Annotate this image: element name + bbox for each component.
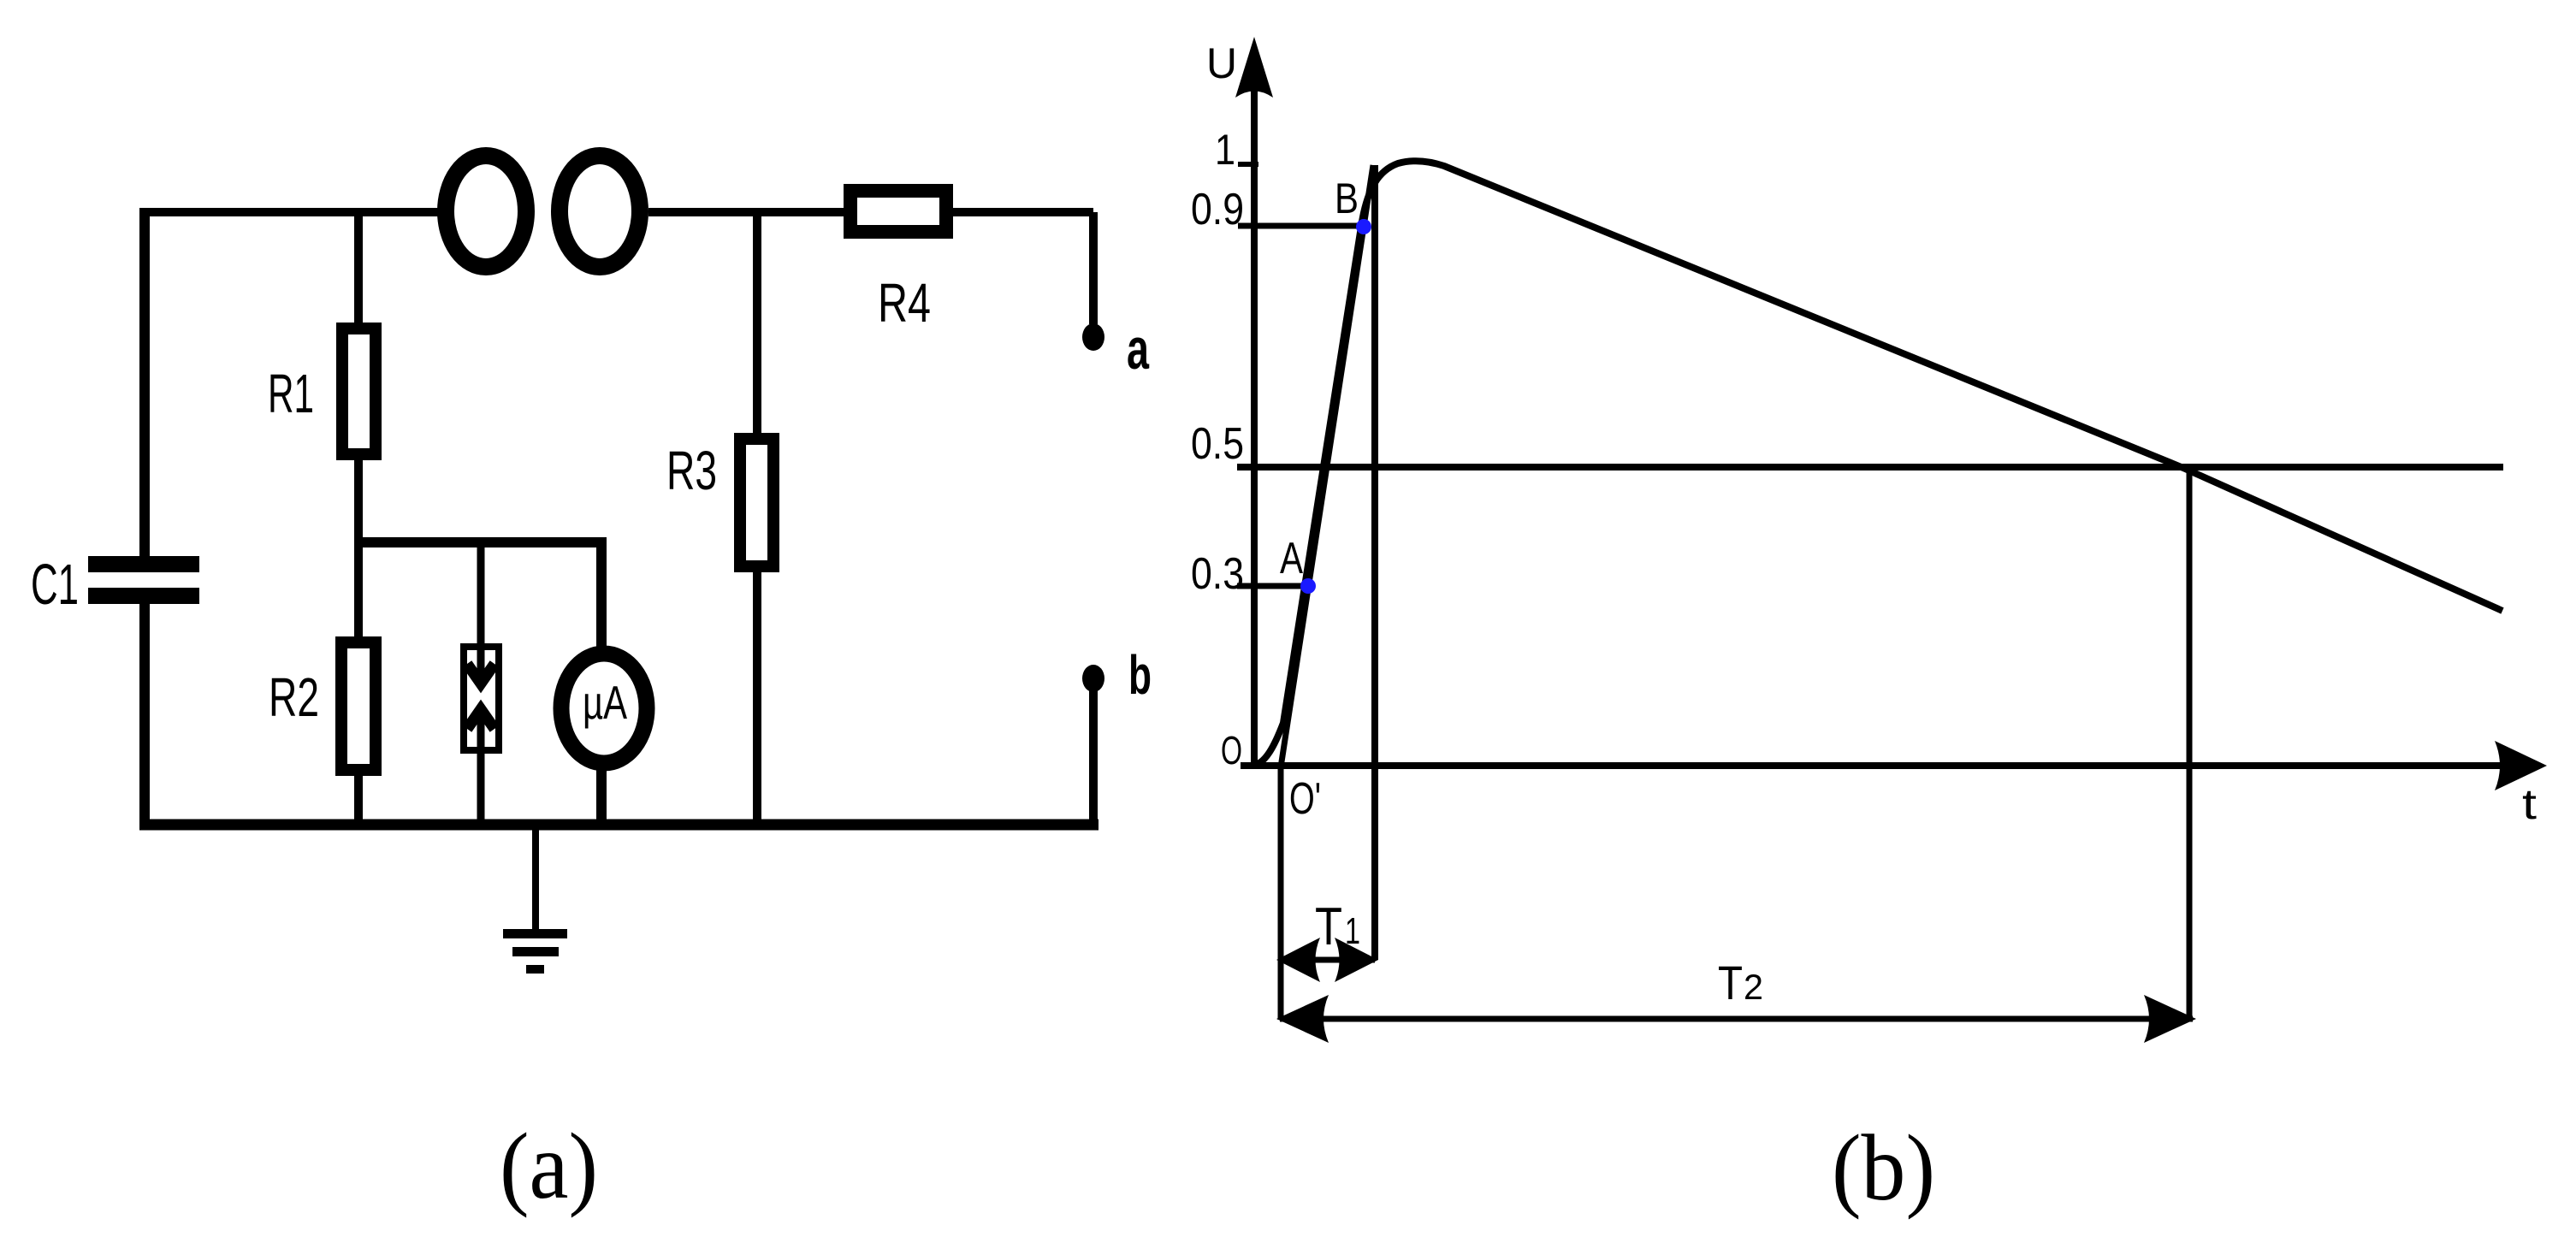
- svg-text:0.5: 0.5: [1191, 419, 1244, 469]
- vertical line at T2 end: [2187, 469, 2193, 1020]
- wire left vertical C1 branch upper: [139, 208, 150, 558]
- wire mid bus down leg to meter: [596, 537, 607, 648]
- svg-text:O: O: [1221, 728, 1242, 772]
- U axis arrowhead: [1235, 37, 1273, 98]
- arrester top arrow: [467, 664, 494, 684]
- T2 arrow left head: [1276, 995, 1329, 1043]
- line U=0.9: [1238, 223, 1364, 229]
- svg-text:B: B: [1335, 175, 1359, 222]
- wire left vertical C1 branch lower: [139, 602, 150, 828]
- tangent line: [1281, 165, 1373, 767]
- wire meter to bottom bus: [596, 761, 607, 824]
- svg-text:R2: R2: [269, 666, 319, 728]
- wire mid bus: [354, 537, 601, 547]
- vertical line at T1 end: [1371, 165, 1378, 960]
- T1 arrow shaft: [1281, 957, 1375, 963]
- svg-text:2: 2: [1744, 967, 1763, 1007]
- wire diode branch lower: [477, 708, 485, 824]
- resistor R4: [850, 191, 946, 232]
- svg-text:R4: R4: [878, 272, 931, 334]
- microammeter uA: [561, 654, 647, 763]
- capacitor C1 bottom plate: [88, 588, 199, 604]
- wire R3 to bottom bus: [753, 566, 761, 824]
- T1 arrow right head: [1335, 938, 1378, 982]
- svg-text:T: T: [1718, 956, 1743, 1009]
- coil circle left: [446, 156, 526, 267]
- ground stem: [532, 824, 539, 929]
- svg-text:t: t: [2522, 780, 2537, 828]
- point A: [1300, 578, 1316, 594]
- ground bar 1: [503, 929, 567, 938]
- wire top bus: [140, 208, 438, 216]
- svg-text:a: a: [1127, 317, 1150, 382]
- svg-text:A: A: [1280, 534, 1303, 583]
- line U=0.5: [1237, 464, 2503, 471]
- t axis: [1241, 762, 2503, 769]
- T1 arrow left head: [1276, 938, 1320, 982]
- line U=0.3: [1237, 583, 1308, 589]
- coil circle right: [560, 156, 640, 267]
- vertical line at O prime: [1278, 767, 1284, 1020]
- point B: [1356, 219, 1371, 234]
- wire R1 to R2: [354, 454, 363, 642]
- wire R1 branch top: [354, 212, 363, 327]
- svg-text:(b): (b): [1832, 1116, 1935, 1220]
- wire up to terminal b: [1089, 690, 1098, 824]
- svg-text:µA: µA: [583, 676, 627, 729]
- T2 arrow shaft: [1280, 1016, 2193, 1022]
- wire bottom bus: [139, 820, 1099, 831]
- wire diode branch upper: [477, 542, 485, 678]
- arrester bottom arrow: [467, 709, 494, 729]
- wire R4 to corner a: [950, 208, 1093, 216]
- svg-text:R3: R3: [666, 440, 717, 501]
- surge arrester box: [464, 647, 499, 750]
- t axis arrowhead: [2495, 741, 2547, 790]
- wire top bus right of coils: [648, 208, 847, 216]
- wire R2 to bottom bus: [354, 770, 363, 824]
- resistor R1: [342, 328, 376, 454]
- capacitor C1 top plate: [88, 556, 199, 572]
- tick U=1: [1238, 162, 1258, 167]
- wire down to terminal a: [1089, 212, 1098, 324]
- svg-text:1: 1: [1215, 126, 1235, 174]
- svg-text:0.3: 0.3: [1191, 549, 1244, 599]
- waveform curve: [1255, 161, 2502, 765]
- svg-text:O': O': [1289, 774, 1321, 824]
- U axis: [1251, 86, 1258, 768]
- svg-text:T: T: [1315, 897, 1342, 956]
- ground bar 2: [512, 947, 559, 956]
- svg-text:b: b: [1128, 644, 1152, 706]
- wire R3 branch top: [753, 212, 761, 438]
- resistor R2: [341, 642, 376, 770]
- svg-text:U: U: [1206, 39, 1237, 87]
- svg-text:1: 1: [1345, 910, 1360, 952]
- svg-text:C1: C1: [31, 553, 79, 617]
- ground bar 3: [526, 965, 544, 974]
- svg-text:0.9: 0.9: [1191, 185, 1244, 234]
- resistor R3: [740, 439, 773, 566]
- terminal a dot: [1082, 323, 1104, 351]
- terminal b dot: [1082, 665, 1104, 692]
- T2 arrow right head: [2144, 995, 2196, 1043]
- svg-text:(a): (a): [500, 1114, 598, 1218]
- svg-text:R1: R1: [268, 363, 314, 424]
